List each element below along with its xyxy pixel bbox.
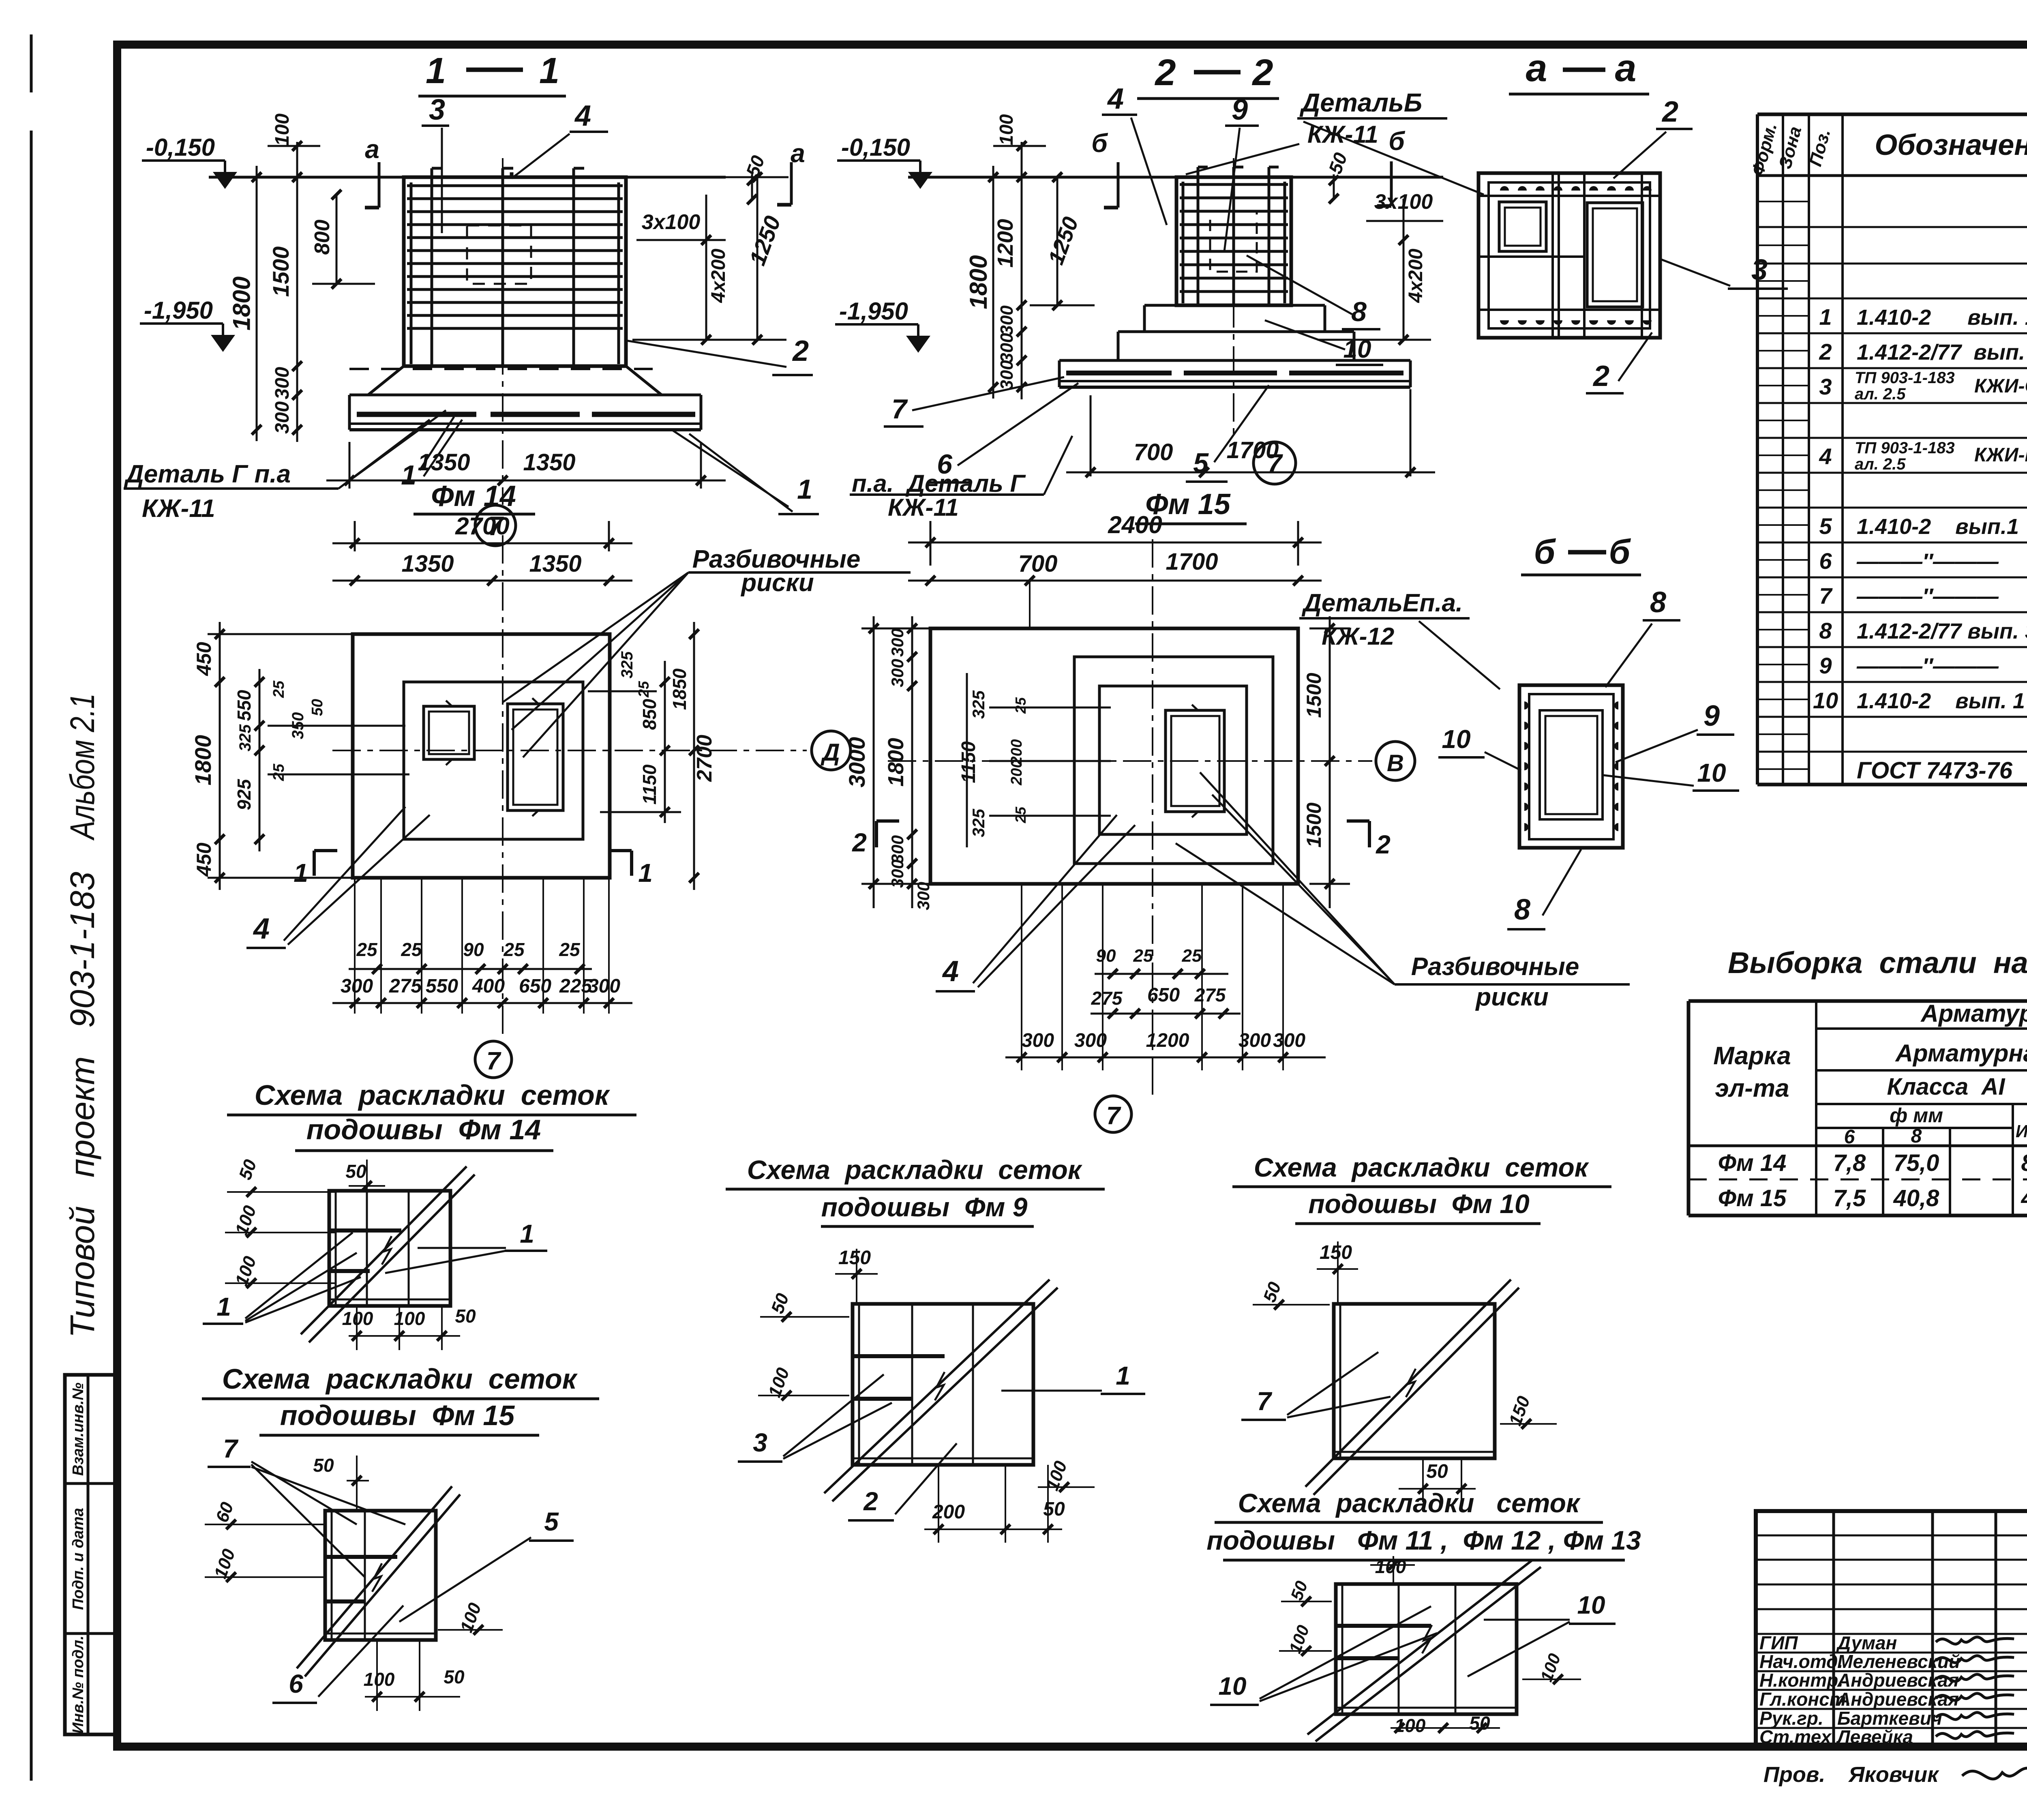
svg-text:риски: риски <box>1475 983 1549 1011</box>
svg-text:275: 275 <box>1194 984 1226 1005</box>
svg-text:2400: 2400 <box>1108 511 1162 538</box>
svg-text:10: 10 <box>1442 725 1470 754</box>
svg-text:-1,950: -1,950 <box>839 298 908 325</box>
svg-text:550: 550 <box>426 975 458 997</box>
svg-text:6: 6 <box>1819 548 1832 574</box>
plan Fm15 left chain 300/1800/300x3 <box>911 616 913 908</box>
svg-text:3х100: 3х100 <box>642 210 701 234</box>
svg-text:подошвы Фм 15: подошвы Фм 15 <box>280 1400 515 1431</box>
svg-text:300: 300 <box>1238 1030 1271 1051</box>
mesh layout diagram Fm10 <box>1334 1304 1495 1458</box>
svg-text:8: 8 <box>1819 618 1832 643</box>
column axis circle 7 (section 1-1) <box>475 505 516 546</box>
svg-text:a: a <box>365 135 379 164</box>
plan Fm14 right dim chain <box>664 661 666 823</box>
svg-text:2: 2 <box>1154 52 1176 93</box>
section 1-1 dashed footing top line <box>349 368 653 370</box>
svg-text:48,3: 48,3 <box>2021 1185 2027 1211</box>
svg-text:40,8: 40,8 <box>1893 1185 1940 1211</box>
svg-text:подошвы Фм 10: подошвы Фм 10 <box>1308 1189 1530 1219</box>
svg-text:7: 7 <box>1819 583 1833 609</box>
mesh layout diagram Fm9 <box>853 1304 1033 1465</box>
svg-text:300: 300 <box>1022 1030 1054 1051</box>
section 1-1 right dim 4x200 <box>705 195 707 340</box>
svg-text:ал. 2.5: ал. 2.5 <box>1855 455 1906 473</box>
svg-text:3: 3 <box>429 94 445 126</box>
svg-text:100: 100 <box>996 114 1017 145</box>
svg-text:100: 100 <box>342 1308 373 1329</box>
title block outer box <box>1756 1511 2027 1747</box>
svg-text:Инв.№ подл.: Инв.№ подл. <box>70 1636 87 1734</box>
section 1-1 left dim chain 1800 <box>256 166 258 441</box>
svg-text:10: 10 <box>1343 335 1371 363</box>
svg-text:6: 6 <box>937 449 953 480</box>
svg-text:Фм 15: Фм 15 <box>1718 1185 1787 1211</box>
svg-text:1200: 1200 <box>1146 1030 1189 1051</box>
svg-text:300: 300 <box>997 305 1017 335</box>
svg-text:Схема раскладки сеток: Схема раскладки сеток <box>222 1363 578 1395</box>
plan Fm14 left dim chain 450/1800/450 <box>219 622 221 890</box>
svg-text:50: 50 <box>313 1455 334 1476</box>
svg-text:a: a <box>791 139 805 168</box>
svg-text:4: 4 <box>574 100 591 132</box>
svg-text:ал. 2.5: ал. 2.5 <box>1855 385 1906 403</box>
svg-text:1.410-2 вып.1: 1.410-2 вып.1 <box>1857 514 2019 539</box>
b-b formwork panel outline <box>1519 685 1623 848</box>
section 1-1 embedded anchor (dashed) <box>467 225 531 284</box>
section 1-1 bottom dim 1350/1350 <box>349 442 351 489</box>
mesh layout diagram Fm15 <box>325 1511 436 1640</box>
svg-text:3000: 3000 <box>844 737 870 788</box>
svg-text:2: 2 <box>863 1487 878 1516</box>
svg-text:1200: 1200 <box>993 219 1018 268</box>
svg-text:50: 50 <box>1043 1498 1065 1520</box>
svg-text:Разбивочные: Разбивочные <box>1411 953 1579 981</box>
svg-text:Яковчик: Яковчик <box>1848 1762 1939 1787</box>
svg-text:Схема раскладки сеток: Схема раскладки сеток <box>1254 1152 1590 1182</box>
a-a rebar dots top <box>1500 186 1509 191</box>
svg-text:300: 300 <box>272 367 293 399</box>
svg-text:50: 50 <box>444 1666 465 1687</box>
plan Fm14 left sub chain 550/325/925 <box>259 669 261 851</box>
svg-text:7: 7 <box>223 1434 239 1463</box>
plan Fm15 step outline <box>1074 657 1273 864</box>
mesh layout diagram Fm11-13 <box>1336 1584 1517 1714</box>
svg-text:200: 200 <box>1008 759 1025 785</box>
plan Fm15 column outline <box>1099 686 1247 834</box>
plan Fm15 sub dims 325/1150/200 <box>966 673 968 847</box>
svg-text:325: 325 <box>618 651 636 678</box>
svg-text:4: 4 <box>942 955 959 988</box>
svg-text:ТП 903-1-183: ТП 903-1-183 <box>1855 439 1955 457</box>
section 2-2 floor level line <box>908 176 1443 179</box>
section 1-1 bottom mesh bars (thick dashes) <box>357 412 476 417</box>
svg-text:1: 1 <box>294 858 308 887</box>
svg-text:25: 25 <box>270 763 287 781</box>
svg-text:300: 300 <box>997 333 1017 363</box>
svg-text:-0,150: -0,150 <box>841 134 910 161</box>
svg-text:10: 10 <box>1697 758 1726 787</box>
section 1-1 floor level line <box>209 176 726 179</box>
svg-text:1: 1 <box>216 1292 231 1321</box>
section 1-1 right dim 50 <box>751 174 753 199</box>
svg-text:10: 10 <box>1813 688 1838 713</box>
svg-text:50: 50 <box>345 1161 366 1182</box>
svg-text:8: 8 <box>1351 296 1367 327</box>
svg-text:325: 325 <box>969 808 988 837</box>
svg-text:700: 700 <box>1134 439 1173 465</box>
svg-text:1800: 1800 <box>228 277 255 330</box>
svg-text:50: 50 <box>455 1306 476 1327</box>
svg-text:Марка: Марка <box>1713 1042 1791 1070</box>
plan Fm14 large anchor box <box>508 704 563 810</box>
title block left rows <box>1756 1535 2027 1537</box>
svg-text:-1,950: -1,950 <box>144 297 213 324</box>
section 2-2 right dim 4x200 <box>1403 199 1405 340</box>
svg-text:82,8: 82,8 <box>2021 1150 2027 1176</box>
svg-text:Схема раскладки сеток: Схема раскладки сеток <box>1238 1488 1581 1518</box>
svg-text:5: 5 <box>544 1507 559 1536</box>
a-a large anchor box <box>1587 203 1643 307</box>
svg-text:75,0: 75,0 <box>1894 1150 1939 1176</box>
svg-text:1800: 1800 <box>190 735 216 786</box>
svg-text:7,5: 7,5 <box>1833 1185 1866 1211</box>
svg-text:25: 25 <box>559 939 581 960</box>
svg-text:1350: 1350 <box>418 449 470 476</box>
svg-text:подошвы Фм 11 , Фм 12 , Фм: подошвы Фм 11 , Фм 12 , Фм 13 <box>1206 1525 1641 1555</box>
svg-text:Фм 14: Фм 14 <box>1718 1150 1787 1176</box>
svg-text:9: 9 <box>1232 94 1248 126</box>
svg-text:———″———: ———″——— <box>1856 584 1999 609</box>
plan Fm14 column outline <box>404 682 583 839</box>
section 2-2 bottom dim 700/1700 <box>1090 395 1092 476</box>
svg-text:2: 2 <box>852 828 867 857</box>
svg-text:25: 25 <box>635 681 652 698</box>
svg-text:Типовой проект 903-1-183: Типовой проект 903-1-183 <box>63 872 101 1338</box>
svg-text:КЖ-11: КЖ-11 <box>888 494 959 521</box>
svg-text:4: 4 <box>1107 83 1124 115</box>
svg-text:150: 150 <box>1320 1242 1352 1263</box>
svg-text:275: 275 <box>1091 988 1123 1009</box>
svg-text:9: 9 <box>1819 653 1832 678</box>
svg-text:Схема раскладки сеток: Схема раскладки сеток <box>747 1155 1083 1185</box>
svg-text:1: 1 <box>426 51 446 91</box>
signature squiggles <box>1936 1637 2014 1644</box>
svg-text:1.412-2/77 вып. 3: 1.412-2/77 вып. 3 <box>1857 619 2027 643</box>
svg-text:700: 700 <box>1018 551 1058 577</box>
svg-text:Фм 14: Фм 14 <box>431 480 516 512</box>
svg-text:a: a <box>1615 47 1637 90</box>
section 2-2 centerline <box>1233 158 1234 440</box>
svg-text:подошвы Фм 9: подошвы Фм 9 <box>821 1192 1028 1222</box>
svg-text:325: 325 <box>969 690 988 719</box>
svg-text:б: б <box>1534 533 1556 571</box>
bottom-left inventory stamp table <box>65 1375 117 1734</box>
svg-text:эл-та: эл-та <box>1715 1074 1789 1102</box>
svg-text:7: 7 <box>1257 1387 1273 1416</box>
svg-text:КЖИ-С5: КЖИ-С5 <box>1974 375 2027 397</box>
section 2-2 embedded anchor dashed <box>1210 211 1257 272</box>
svg-text:4х200: 4х200 <box>1405 249 1427 303</box>
svg-text:1: 1 <box>638 858 653 887</box>
svg-text:КЖ-11: КЖ-11 <box>1307 121 1378 148</box>
svg-text:25: 25 <box>1182 946 1202 966</box>
svg-text:925: 925 <box>234 778 255 810</box>
plan Fm14 outer footing square <box>353 634 610 878</box>
svg-text:Подп. и дата: Подп. и дата <box>70 1508 87 1610</box>
svg-text:25: 25 <box>503 939 525 960</box>
svg-text:КЖИ-МН1-8: КЖИ-МН1-8 <box>1974 444 2027 466</box>
svg-text:300: 300 <box>914 882 933 910</box>
svg-text:50: 50 <box>309 699 326 716</box>
svg-text:Арматурные изделия: Арматурные изделия <box>1920 1000 2027 1027</box>
section 1-1 footing step diagonals <box>368 366 404 395</box>
svg-text:10: 10 <box>1219 1672 1247 1700</box>
svg-text:325: 325 <box>236 724 254 751</box>
steel table grid <box>1688 999 2027 1003</box>
a-a inner vertical battens <box>1551 173 1554 338</box>
section 2-2 left chain 1200/300/300/300 <box>1021 142 1023 399</box>
svg-text:650: 650 <box>519 975 551 997</box>
svg-text:300: 300 <box>888 659 907 687</box>
column axis circle 7 (section 2-2) <box>1253 442 1296 484</box>
svg-text:7,8: 7,8 <box>1833 1150 1866 1176</box>
svg-text:подошвы Фм 14: подошвы Фм 14 <box>306 1114 541 1145</box>
leader fan to risks (plan Fm14) <box>503 572 688 702</box>
axis circle В (plan Fm15) <box>1376 742 1415 780</box>
svg-text:———″———: ———″——— <box>1856 654 1999 678</box>
svg-text:Рук.гр.: Рук.гр. <box>1759 1708 1823 1729</box>
section 2-2 concrete column with rebar <box>1176 177 1291 305</box>
svg-text:300: 300 <box>588 975 620 997</box>
plan Fm15 vertical centerline <box>1152 539 1153 1078</box>
svg-text:-0,150: -0,150 <box>146 134 215 161</box>
svg-text:Выборка стали на один элем: Выборка стали на один элемент, ке <box>1728 946 2027 980</box>
svg-text:100: 100 <box>364 1669 395 1690</box>
plan Fm14 horizontal centerline to axis Д <box>332 750 807 751</box>
svg-text:2: 2 <box>792 335 809 367</box>
svg-text:Д: Д <box>820 739 840 766</box>
section 2-2 slab mesh thick dashes <box>1066 371 1172 375</box>
svg-text:7: 7 <box>486 1047 501 1075</box>
svg-text:Меленевский: Меленевский <box>1837 1651 1960 1672</box>
section 1-1 left dim chain 1500/300/300 <box>296 142 298 442</box>
plan Fm15 horizontal centerline to axis В <box>888 760 1372 762</box>
svg-text:400: 400 <box>472 975 505 997</box>
a-a rebar dots bottom <box>1500 320 1509 325</box>
svg-text:1700: 1700 <box>1166 549 1218 575</box>
svg-text:300: 300 <box>272 401 293 434</box>
svg-text:1500: 1500 <box>1303 673 1325 718</box>
plan Fm15 left dim chain 300/3000 <box>873 616 875 908</box>
plan Fm15 anchor well box <box>1166 710 1224 812</box>
svg-text:4: 4 <box>1819 444 1832 469</box>
section 2-2 left dim chain 1800 <box>992 166 994 399</box>
plan Fm15 dim 700/1700 <box>908 580 1322 582</box>
svg-text:Левейка: Левейка <box>1836 1726 1913 1747</box>
svg-text:275: 275 <box>389 975 422 997</box>
svg-text:б: б <box>1091 129 1108 158</box>
svg-text:5: 5 <box>1819 513 1832 539</box>
svg-text:4х200: 4х200 <box>708 249 729 303</box>
svg-text:Класса АI: Класса АI <box>1887 1074 2006 1100</box>
svg-text:25: 25 <box>270 680 287 698</box>
section 1-1 right dim 1250 <box>756 177 759 340</box>
svg-text:Андриевская: Андриевская <box>1837 1670 1959 1691</box>
svg-text:Обозначение: Обозначение <box>1875 129 2027 161</box>
svg-text:300: 300 <box>888 860 907 888</box>
svg-text:50: 50 <box>1426 1461 1448 1482</box>
svg-text:100: 100 <box>1395 1715 1426 1736</box>
svg-text:7: 7 <box>1267 448 1283 478</box>
plan Fm14 bottom extension lines <box>380 878 382 1014</box>
svg-text:4: 4 <box>253 913 270 945</box>
svg-text:1.410-2 вып. 1: 1.410-2 вып. 1 <box>1857 689 2025 713</box>
svg-text:100: 100 <box>272 114 293 146</box>
svg-text:ДетальЕп.а.: ДетальЕп.а. <box>1301 589 1463 617</box>
svg-text:б: б <box>1388 126 1406 156</box>
section 2-2 dim 1250 left <box>1056 177 1058 305</box>
svg-text:1850: 1850 <box>669 668 690 710</box>
svg-text:7: 7 <box>891 394 908 424</box>
svg-text:25: 25 <box>356 939 378 960</box>
svg-text:200: 200 <box>932 1501 965 1523</box>
svg-text:б: б <box>1609 533 1631 571</box>
svg-text:ТП 903-1-183: ТП 903-1-183 <box>1855 369 1955 387</box>
svg-text:800: 800 <box>311 220 334 255</box>
svg-text:300: 300 <box>1273 1030 1305 1051</box>
plan Fm14 vertical centerline <box>502 535 504 1038</box>
section 1-1 footing slab <box>349 394 701 397</box>
a-a formwork panel outline <box>1478 173 1660 338</box>
svg-text:1150: 1150 <box>639 764 660 804</box>
svg-text:1500: 1500 <box>1303 802 1325 847</box>
svg-text:КЖ-11: КЖ-11 <box>142 495 215 523</box>
svg-text:3: 3 <box>753 1428 767 1457</box>
section 2-2 vertical rebars with hooks <box>1197 167 1200 304</box>
svg-text:300: 300 <box>997 360 1017 390</box>
svg-text:8: 8 <box>1514 894 1530 926</box>
svg-text:1.410-2 вып. 1: 1.410-2 вып. 1 <box>1857 305 2027 330</box>
axis circle 7 (plan Fm15) <box>1095 1096 1131 1132</box>
specification table grid <box>1756 114 1759 785</box>
svg-text:450: 450 <box>193 842 215 877</box>
svg-text:Ст.тех: Ст.тех <box>1759 1726 1832 1747</box>
svg-text:450: 450 <box>193 642 215 676</box>
svg-text:9: 9 <box>1703 700 1720 732</box>
svg-text:1: 1 <box>401 460 416 491</box>
leader fan from Деталь Г to footing <box>339 410 446 489</box>
svg-text:ДетальБ: ДетальБ <box>1299 88 1422 117</box>
section 1-1 vertical rebars with top hooks <box>431 168 433 365</box>
section 1-1 concrete column outline with rebar <box>404 177 626 366</box>
svg-text:10: 10 <box>1577 1591 1605 1619</box>
svg-text:2: 2 <box>1661 96 1678 128</box>
section 2-2 footing slab <box>1059 359 1410 362</box>
mesh layout diagram Fm14 <box>329 1191 450 1306</box>
svg-text:ф мм: ф мм <box>1890 1104 1943 1127</box>
svg-text:———″———: ———″——— <box>1856 549 1999 574</box>
svg-text:Альбом 2.1: Альбом 2.1 <box>63 693 101 841</box>
svg-text:1800: 1800 <box>965 255 992 309</box>
svg-text:8: 8 <box>1911 1125 1922 1147</box>
svg-text:Деталь Г п.а: Деталь Г п.а <box>124 460 291 488</box>
svg-text:Пров.: Пров. <box>1763 1762 1825 1787</box>
svg-text:6: 6 <box>1844 1126 1855 1148</box>
svg-text:1.412-2/77 вып. 3: 1.412-2/77 вып. 3 <box>1857 340 2027 364</box>
svg-text:1: 1 <box>1819 304 1832 330</box>
section 2-2 right dim 50 <box>1333 174 1335 199</box>
svg-text:1: 1 <box>1116 1361 1130 1390</box>
svg-text:300: 300 <box>341 975 373 997</box>
svg-text:650: 650 <box>1147 984 1180 1006</box>
svg-text:1350: 1350 <box>529 551 581 577</box>
plan Fm15 top dim 2400 <box>930 521 932 566</box>
svg-text:25: 25 <box>401 939 422 960</box>
svg-text:550: 550 <box>234 690 255 721</box>
section 1-1 centerline <box>502 158 504 505</box>
svg-text:1350: 1350 <box>523 449 575 476</box>
svg-text:В: В <box>1387 750 1404 776</box>
title block signature column lines <box>1832 1511 1835 1747</box>
svg-text:2700: 2700 <box>693 735 716 782</box>
svg-text:1: 1 <box>797 474 812 505</box>
svg-text:1500: 1500 <box>268 247 294 297</box>
plan Fm15 right dim chain 1500/1500 <box>1329 616 1331 908</box>
svg-text:2: 2 <box>1376 830 1391 859</box>
svg-text:25: 25 <box>1012 697 1029 714</box>
svg-text:1150: 1150 <box>958 741 979 783</box>
svg-text:8: 8 <box>1650 586 1666 619</box>
svg-text:1: 1 <box>520 1219 534 1248</box>
b-b inner box <box>1540 710 1603 819</box>
svg-text:a: a <box>1526 47 1547 90</box>
svg-text:ГОСТ 7473-76: ГОСТ 7473-76 <box>1857 757 2013 784</box>
svg-text:Итого: Итого <box>2016 1121 2027 1141</box>
section 1-1 dim 800 <box>336 195 338 284</box>
svg-text:Барткевич: Барткевич <box>1837 1708 1942 1729</box>
svg-text:150: 150 <box>838 1247 871 1269</box>
plan Fm14 dim 1350/1350 <box>332 580 632 582</box>
plan Fm15 outer footing square <box>930 628 1298 884</box>
svg-text:Взам.инв.№: Взам.инв.№ <box>70 1383 87 1476</box>
a-a inner horizontal battens <box>1478 195 1660 197</box>
svg-text:25: 25 <box>1133 946 1153 966</box>
svg-text:2700: 2700 <box>455 512 509 540</box>
sheet binding edge line <box>30 34 33 92</box>
svg-text:Андриевская: Андриевская <box>1837 1689 1959 1710</box>
svg-text:90: 90 <box>463 939 484 960</box>
a-a small anchor box <box>1499 202 1546 251</box>
svg-text:Арматурная сталь по ГОСТ: Арматурная сталь по ГОСТ 5781-75 <box>1895 1040 2027 1067</box>
svg-text:300: 300 <box>888 835 907 864</box>
axis circle 7 (plan Fm14) <box>475 1041 512 1078</box>
svg-text:300: 300 <box>888 628 907 657</box>
svg-text:90: 90 <box>1096 946 1116 966</box>
svg-text:1: 1 <box>539 51 559 91</box>
svg-text:ГИП: ГИП <box>1759 1632 1798 1653</box>
svg-text:2: 2 <box>1251 52 1273 93</box>
b-b rebar dots left/right <box>1524 701 1528 710</box>
svg-text:Схема раскладки сеток: Схема раскладки сеток <box>255 1079 611 1111</box>
svg-text:2: 2 <box>1592 360 1609 392</box>
plan Fm14 small anchor box <box>424 706 474 759</box>
plan Fm14 top dim 2700 <box>354 521 356 551</box>
svg-text:1800: 1800 <box>884 738 908 787</box>
section 2-2 footing steps <box>1144 304 1325 307</box>
svg-text:850: 850 <box>639 699 660 730</box>
svg-text:Н.контр.: Н.контр. <box>1759 1670 1843 1691</box>
